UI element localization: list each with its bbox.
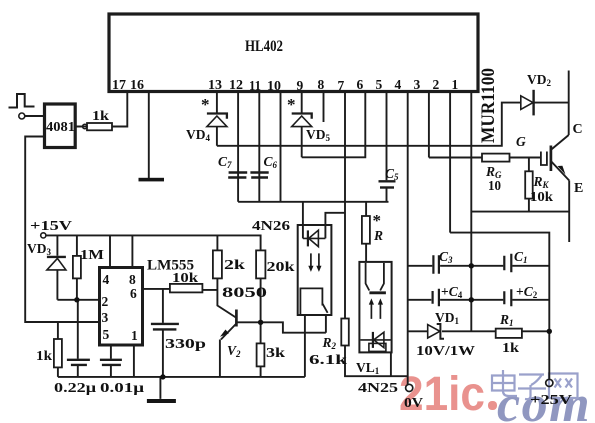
svg-text:0.22μ: 0.22μ — [54, 380, 96, 395]
svg-text:8050: 8050 — [222, 285, 267, 301]
svg-text:11: 11 — [249, 78, 261, 93]
svg-text:5: 5 — [376, 77, 383, 92]
svg-text:G: G — [516, 134, 526, 149]
svg-text:4N25: 4N25 — [358, 380, 398, 395]
svg-text:9: 9 — [297, 78, 304, 93]
svg-text:2: 2 — [433, 77, 440, 92]
svg-text:+15V: +15V — [30, 218, 72, 233]
svg-text:+C4: +C4 — [441, 284, 463, 300]
svg-text:+C2: +C2 — [516, 284, 538, 300]
svg-text:C: C — [573, 122, 583, 137]
svg-text:1M: 1M — [80, 247, 104, 262]
svg-text:4081: 4081 — [46, 120, 75, 135]
svg-text:1: 1 — [131, 328, 138, 343]
svg-text:1: 1 — [452, 77, 459, 92]
svg-text:C7: C7 — [218, 154, 232, 170]
svg-text:7: 7 — [338, 78, 345, 93]
svg-text:1k: 1k — [92, 108, 110, 123]
svg-text:4: 4 — [395, 77, 402, 92]
svg-text:VD3: VD3 — [27, 241, 52, 257]
svg-text:6.1k: 6.1k — [309, 352, 348, 367]
svg-text:17: 17 — [112, 77, 126, 92]
svg-text:C6: C6 — [264, 154, 278, 170]
svg-text:VD1: VD1 — [435, 310, 460, 326]
svg-text:3: 3 — [102, 310, 109, 325]
svg-text:10V/1W: 10V/1W — [416, 343, 476, 358]
svg-text:20k: 20k — [267, 259, 296, 274]
svg-text:C5: C5 — [385, 166, 399, 182]
svg-text:6: 6 — [130, 286, 137, 301]
svg-text:10k: 10k — [530, 189, 554, 204]
svg-text:16: 16 — [130, 77, 144, 92]
svg-text:*: * — [201, 95, 210, 114]
svg-text:3k: 3k — [266, 345, 286, 360]
svg-text:3: 3 — [414, 77, 421, 92]
svg-text:4N26: 4N26 — [252, 218, 290, 233]
svg-text:RK: RK — [533, 174, 550, 190]
svg-text:8: 8 — [318, 77, 325, 92]
svg-text:2k: 2k — [224, 257, 246, 272]
svg-text:330p: 330p — [165, 336, 206, 351]
svg-text:VD4: VD4 — [186, 127, 211, 143]
svg-text:+25V: +25V — [530, 392, 572, 407]
svg-text:4: 4 — [103, 272, 110, 287]
svg-text:VD5: VD5 — [306, 127, 331, 143]
svg-text:5: 5 — [103, 327, 110, 342]
svg-text:8: 8 — [129, 272, 136, 287]
svg-text:VL1: VL1 — [356, 360, 380, 376]
svg-text:6: 6 — [357, 77, 364, 92]
svg-text:12: 12 — [229, 77, 243, 92]
svg-text:1k: 1k — [502, 340, 520, 355]
svg-text:VD2: VD2 — [527, 72, 552, 88]
svg-text:10k: 10k — [172, 270, 199, 285]
svg-text:2: 2 — [102, 294, 109, 309]
svg-text:C1: C1 — [514, 249, 528, 265]
svg-text:HL402: HL402 — [245, 38, 283, 55]
svg-text:0.01μ: 0.01μ — [100, 380, 144, 395]
svg-text:E: E — [574, 181, 583, 196]
svg-text:0V: 0V — [404, 395, 423, 410]
svg-text:C3: C3 — [439, 249, 453, 265]
svg-text:13: 13 — [208, 77, 222, 92]
svg-text:*: * — [287, 95, 296, 114]
svg-text:10: 10 — [488, 178, 501, 193]
svg-text:R1: R1 — [499, 312, 514, 328]
svg-text:R: R — [373, 228, 383, 243]
svg-text:R2: R2 — [322, 335, 337, 351]
svg-text:1k: 1k — [36, 348, 53, 363]
svg-text:MUR1100: MUR1100 — [478, 68, 499, 143]
svg-text:10: 10 — [267, 78, 281, 93]
svg-text:V2: V2 — [227, 343, 241, 359]
